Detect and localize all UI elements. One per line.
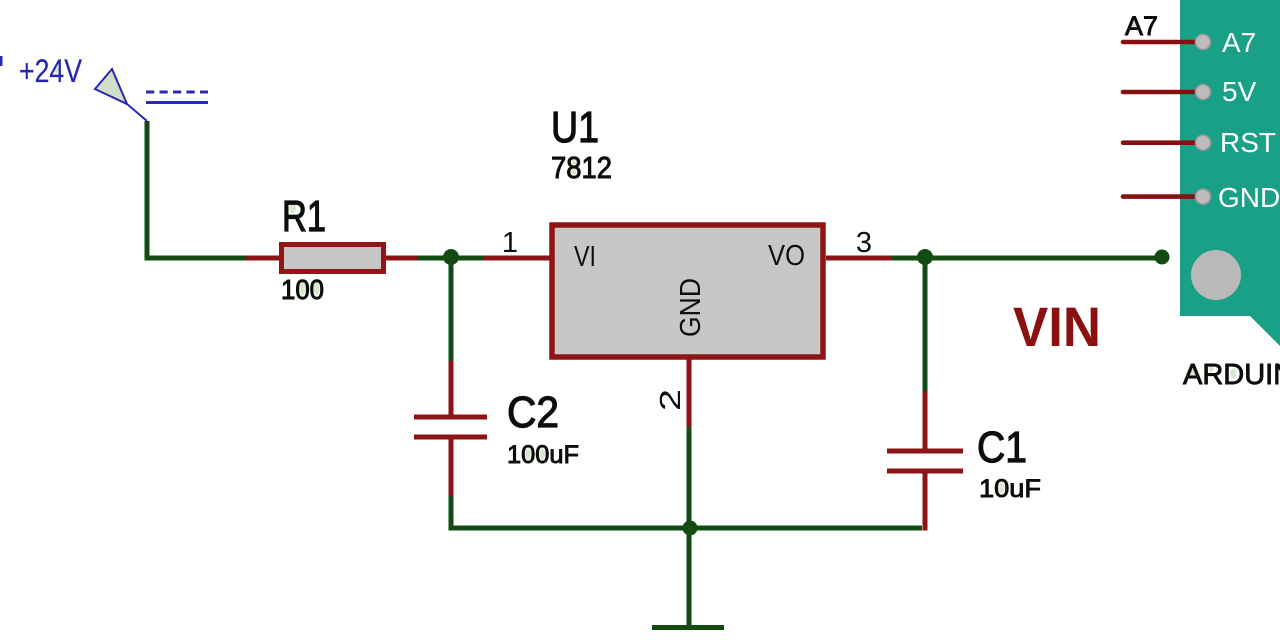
- connector J1 Arduino: [1180, 0, 1280, 346]
- svg-text:2: 2: [655, 389, 687, 411]
- svg-text:GND: GND: [675, 278, 707, 337]
- svg-text:ARDUINO: ARDUINO: [1183, 359, 1280, 391]
- power terminal +24V: [95, 69, 208, 121]
- svg-text:VI: VI: [574, 241, 596, 273]
- wire R1 to node A: [418, 256, 483, 261]
- svg-text:U1: U1: [551, 103, 599, 152]
- wire U1 pin2 to ground rail: [687, 427, 692, 528]
- node B junction: [917, 249, 933, 265]
- ground stem wire: [687, 528, 692, 625]
- svg-text:1: 1: [502, 227, 518, 259]
- svg-text:VO: VO: [768, 240, 805, 272]
- value 7812: [551, 150, 612, 185]
- svg-text:R1: R1: [282, 192, 326, 241]
- pin 2 stub U1: [687, 359, 692, 427]
- node GND junction: [683, 521, 698, 536]
- ground rail wire: [449, 526, 923, 531]
- svg-text:VIN: VIN: [1013, 295, 1101, 358]
- value 10uF: [979, 475, 1041, 503]
- pad RST: [1196, 135, 1211, 150]
- svg-text:100: 100: [281, 274, 324, 305]
- svg-text:A7: A7: [1222, 27, 1256, 58]
- svg-text:7812: 7812: [551, 150, 612, 185]
- svg-text:A7: A7: [1125, 11, 1158, 41]
- value 100uF: [507, 441, 579, 469]
- svg-text:3: 3: [856, 227, 872, 259]
- resistor R1: [246, 245, 418, 272]
- ground symbol: [652, 625, 724, 630]
- wire node B down to C1: [923, 257, 928, 391]
- label R1: [282, 192, 326, 241]
- wire 5V: [1123, 90, 1196, 95]
- pin 3 stub U1: [826, 256, 892, 261]
- wire node B to Arduino VIN: [925, 256, 1162, 261]
- pin 1 stub U1: [483, 256, 551, 261]
- capacitor C2: [414, 361, 487, 496]
- power rail tick: [0, 56, 3, 66]
- net label +24V: [19, 53, 83, 89]
- label ARDUINO: [1183, 359, 1280, 391]
- svg-text:10uF: 10uF: [979, 475, 1041, 503]
- svg-text:5V: 5V: [1222, 76, 1257, 107]
- wire U1 pin3 to node B: [892, 256, 925, 261]
- wire node A down to C2: [449, 257, 454, 361]
- wire +24V horizontal: [145, 256, 247, 261]
- svg-text:RST: RST: [1220, 127, 1276, 158]
- wire +24V vertical: [145, 121, 150, 258]
- svg-text:C2: C2: [507, 388, 559, 437]
- svg-text:GND: GND: [1218, 182, 1280, 213]
- wire A7: [1123, 40, 1196, 45]
- value 100: [281, 274, 324, 305]
- wire RST: [1123, 140, 1196, 145]
- wire C2 to ground rail: [449, 496, 454, 531]
- svg-text:100uF: 100uF: [507, 441, 579, 469]
- wire end dot at Arduino: [1155, 250, 1170, 265]
- svg-text:+24V: +24V: [19, 53, 83, 89]
- regulator U1 7812: [552, 225, 823, 357]
- node A junction: [443, 249, 459, 265]
- mounting hole: [1191, 250, 1241, 300]
- wire GND: [1123, 194, 1196, 199]
- pad GND: [1196, 189, 1211, 204]
- capacitor C1: [887, 391, 963, 531]
- net label A7: [1125, 11, 1158, 41]
- pad 5V: [1196, 85, 1211, 100]
- svg-text:C1: C1: [977, 423, 1027, 472]
- pad A7: [1196, 35, 1211, 50]
